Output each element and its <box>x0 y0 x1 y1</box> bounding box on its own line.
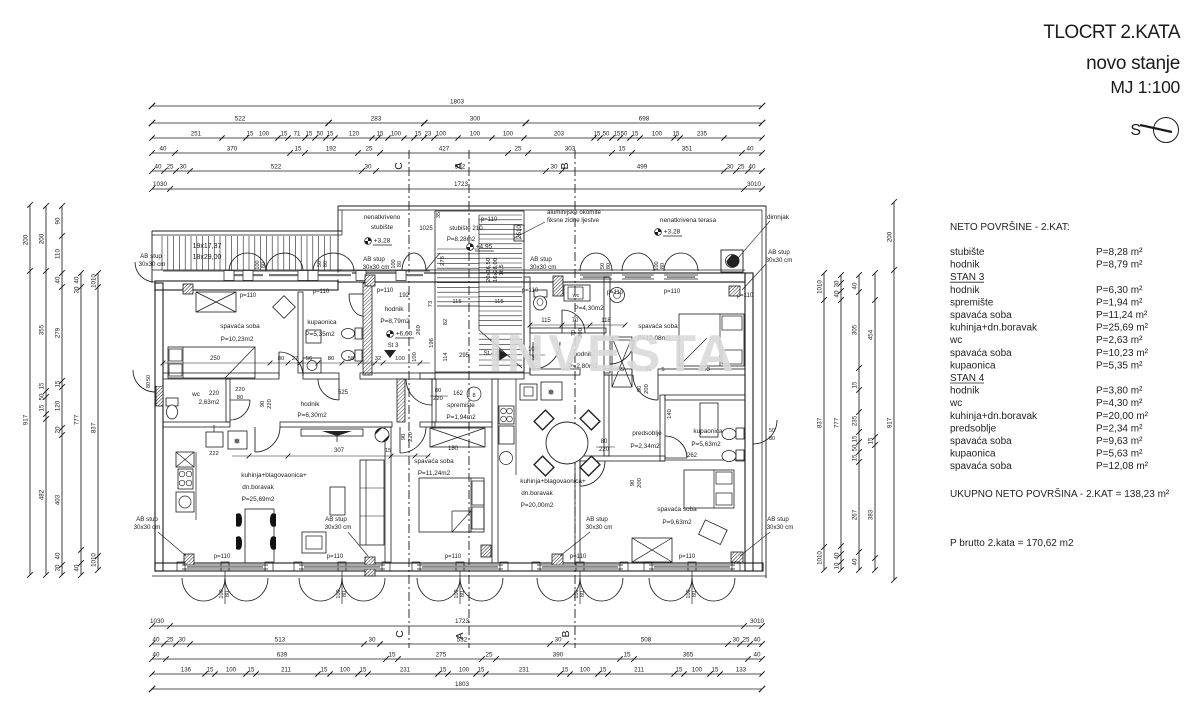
svg-text:50: 50 <box>852 444 859 451</box>
svg-text:kupaonica: kupaonica <box>950 360 996 371</box>
svg-text:2,63m2: 2,63m2 <box>199 399 220 406</box>
svg-text:kupaonica: kupaonica <box>307 319 337 326</box>
svg-text:P=2,34m2: P=2,34m2 <box>630 443 660 450</box>
svg-text:15: 15 <box>478 667 485 674</box>
dimension chains left side <box>23 202 101 578</box>
svg-text:50: 50 <box>146 375 152 381</box>
svg-text:STAN 3: STAN 3 <box>950 272 985 283</box>
svg-text:spavaća soba: spavaća soba <box>414 458 454 465</box>
svg-text:P=25,69m2: P=25,69m2 <box>242 496 275 503</box>
svg-text:wc: wc <box>949 398 962 409</box>
svg-text:40: 40 <box>154 164 162 171</box>
bed bedroom STAN4 (12,08) <box>679 314 744 366</box>
svg-text:AB stup: AB stup <box>363 256 385 263</box>
svg-text:p=110: p=110 <box>570 554 587 560</box>
svg-text:hodnik: hodnik <box>385 306 405 313</box>
svg-text:390: 390 <box>553 652 564 659</box>
svg-text:192: 192 <box>399 293 410 299</box>
svg-text:100: 100 <box>259 131 270 138</box>
room label spremiste <box>446 402 476 421</box>
svg-text:8: 8 <box>472 393 475 399</box>
svg-text:200: 200 <box>23 234 30 245</box>
bath tub kupaonica STAN4 <box>700 403 718 437</box>
svg-text:P=4,30m2: P=4,30m2 <box>574 305 604 312</box>
svg-text:15: 15 <box>207 667 214 674</box>
svg-text:90: 90 <box>401 434 407 440</box>
svg-text:P=3,80 m²: P=3,80 m² <box>1096 386 1143 397</box>
svg-text:15: 15 <box>281 131 288 138</box>
room label hodnik 8,79 <box>380 306 414 358</box>
room label hodnik 6,30 <box>297 401 327 419</box>
washbasin kupaonica STAN3 <box>303 358 321 373</box>
svg-text:p=110: p=110 <box>445 554 462 560</box>
svg-text:P=5,63 m²: P=5,63 m² <box>1096 449 1143 460</box>
svg-text:80: 80 <box>460 591 466 597</box>
ventilation circle wc STAN4 <box>610 288 625 303</box>
svg-text:kuhinja+dn.boravak: kuhinja+dn.boravak <box>950 411 1038 422</box>
svg-text:stubište: stubište <box>371 224 393 231</box>
svg-text:spremište: spremište <box>950 297 994 308</box>
sofa STAN3 <box>302 460 384 553</box>
svg-text:+4,95: +4,95 <box>476 244 493 251</box>
svg-text:1803: 1803 <box>450 99 465 106</box>
svg-text:25: 25 <box>485 652 493 659</box>
svg-text:30: 30 <box>550 164 558 171</box>
svg-text:NETO POVRŠINE - 2.KAT:: NETO POVRŠINE - 2.KAT: <box>950 220 1070 233</box>
svg-text:482: 482 <box>39 489 46 500</box>
svg-text:P=5,35 m²: P=5,35 m² <box>1096 360 1143 371</box>
svg-text:P=2,63 m²: P=2,63 m² <box>1096 335 1143 346</box>
wall below stairs <box>420 373 524 379</box>
svg-text:spavaća soba: spavaća soba <box>657 506 697 513</box>
svg-text:p=110: p=110 <box>522 288 539 294</box>
svg-text:15: 15 <box>440 667 447 674</box>
svg-text:novo stanje: novo stanje <box>1086 53 1180 74</box>
wall kitchen/bedroom STAN4 <box>575 456 580 563</box>
toilet+bidet kupaonica STAN3 <box>342 328 363 361</box>
room label spavaca 9,63 <box>657 506 697 526</box>
svg-text:100: 100 <box>503 131 514 138</box>
wardrobe X-box bedroom1 STAN3 <box>196 292 236 312</box>
svg-text:30: 30 <box>179 164 187 171</box>
svg-text:MJ 1:100: MJ 1:100 <box>1110 77 1180 97</box>
wc room walls STAN3 <box>163 379 230 427</box>
svg-text:1010: 1010 <box>91 553 98 567</box>
svg-text:1010: 1010 <box>817 551 824 565</box>
svg-text:351: 351 <box>682 146 693 153</box>
svg-text:P brutto 2.kata = 170,62 m2: P brutto 2.kata = 170,62 m2 <box>950 538 1074 549</box>
svg-text:hodnik: hodnik <box>301 401 321 408</box>
svg-text:spavaća soba: spavaća soba <box>220 323 260 330</box>
label dimnjak with leader <box>738 214 790 258</box>
svg-text:10: 10 <box>834 562 841 569</box>
window w/ swing arcs, top wall left section <box>163 253 440 281</box>
svg-text:40: 40 <box>834 290 841 297</box>
svg-text:15: 15 <box>868 437 875 444</box>
svg-text:15: 15 <box>632 131 639 138</box>
svg-text:100: 100 <box>580 667 591 674</box>
svg-text:p=110: p=110 <box>679 554 696 560</box>
svg-text:454: 454 <box>868 329 875 340</box>
dimension chain bottom row2 40/25/30/513/30/532/30/508/30/25/40 <box>149 637 765 647</box>
svg-text:p=110: p=110 <box>607 290 624 296</box>
svg-text:100: 100 <box>459 667 470 674</box>
dimension chain bottom row1 1030/1723/3010 <box>149 618 765 629</box>
svg-text:56: 56 <box>306 356 312 362</box>
kitchen counter STAN4 <box>499 379 562 475</box>
door bedroom STAN3 <box>400 427 426 453</box>
svg-text:27: 27 <box>292 356 298 362</box>
dimension chain top row6 1030/1723/3010 <box>149 181 765 192</box>
svg-text:100: 100 <box>692 667 703 674</box>
svg-text:15: 15 <box>55 380 62 387</box>
svg-text:80: 80 <box>580 591 586 597</box>
svg-text:P=6,30 m²: P=6,30 m² <box>1096 285 1143 296</box>
toilet+bidet kupaonica STAN4 <box>722 428 744 462</box>
svg-text:aluminijske okomite: aluminijske okomite <box>547 209 602 216</box>
svg-text:kuhinja+blagovaonica+: kuhinja+blagovaonica+ <box>241 472 307 479</box>
svg-text:kuhinja+dn.boravak: kuhinja+dn.boravak <box>950 323 1038 334</box>
svg-text:220: 220 <box>267 399 273 409</box>
wall chunk corridor/understairs <box>397 379 405 422</box>
axis line A <box>453 150 469 648</box>
svg-text:STAN 4: STAN 4 <box>950 373 985 384</box>
bed bedroom2 STAN3 (11,24) <box>419 478 484 532</box>
interior dim line 307 kitchen STAN3 <box>232 455 430 457</box>
area table NETO POVRSINE <box>949 220 1170 549</box>
svg-text:50: 50 <box>317 131 324 138</box>
svg-text:30: 30 <box>55 564 62 571</box>
svg-text:180: 180 <box>448 446 459 452</box>
TV bench STAN3 <box>301 429 363 442</box>
svg-text:15: 15 <box>594 131 601 138</box>
svg-text:15: 15 <box>294 146 302 153</box>
svg-text:15: 15 <box>600 667 607 674</box>
label AB stup 30x30 top right <box>742 249 792 290</box>
svg-text:wc: wc <box>191 391 201 398</box>
svg-text:15: 15 <box>673 131 680 138</box>
open terrace outline top <box>152 206 766 578</box>
svg-text:25: 25 <box>514 146 522 153</box>
svg-text:80: 80 <box>278 356 284 362</box>
svg-text:837: 837 <box>817 417 824 428</box>
svg-text:S: S <box>1130 122 1141 139</box>
svg-text:50: 50 <box>603 131 610 138</box>
svg-text:522: 522 <box>271 164 282 171</box>
predsoblje walls <box>580 375 665 461</box>
svg-text:15: 15 <box>385 448 391 454</box>
svg-text:AB stup: AB stup <box>136 516 158 523</box>
dimension chains right side <box>817 199 897 583</box>
svg-text:100: 100 <box>470 131 481 138</box>
svg-text:15: 15 <box>852 435 859 442</box>
svg-text:220: 220 <box>235 387 245 393</box>
window w/ swing arcs, top wall right section (terrace doors) <box>580 253 698 281</box>
dimension chain bottom row4 fine segments <box>149 667 764 677</box>
svg-text:30x30 cm: 30x30 cm <box>767 524 794 531</box>
svg-text:15: 15 <box>248 667 255 674</box>
svg-text:P=20,00m2: P=20,00m2 <box>521 502 554 509</box>
svg-text:p=110: p=110 <box>377 288 394 294</box>
svg-text:A: A <box>453 162 465 169</box>
svg-text:B: B <box>559 162 571 169</box>
svg-text:AB stup: AB stup <box>530 256 552 263</box>
interior wall kitchen/bedroom STAN3 <box>385 427 391 563</box>
svg-text:3010: 3010 <box>750 618 765 625</box>
central staircase block <box>419 211 524 372</box>
svg-text:698: 698 <box>639 116 650 123</box>
svg-text:predsoblje: predsoblje <box>632 430 662 437</box>
decor diamond bedroom1 <box>273 296 296 319</box>
svg-text:522: 522 <box>235 116 246 123</box>
left wall window arc near stairs <box>135 262 155 282</box>
chair diamond bedroom STAN4 <box>699 520 728 545</box>
wardrobe X STAN4 hall <box>612 337 632 387</box>
svg-text:777: 777 <box>74 414 81 425</box>
svg-text:365: 365 <box>683 652 694 659</box>
svg-text:30: 30 <box>178 637 186 644</box>
dimension chain top row4 40/370/15/192/25/427/25/303/15/351/40 <box>149 146 765 156</box>
svg-text:30x30 cm: 30x30 cm <box>530 264 557 271</box>
shower box kupaonica STAN3 <box>306 330 321 343</box>
svg-text:30x30 cm: 30x30 cm <box>586 524 613 531</box>
ladder label: aluminijske okomite fiksne zidne ljestve <box>514 209 602 241</box>
svg-text:30: 30 <box>732 637 740 644</box>
svg-text:St 3: St 3 <box>388 343 399 349</box>
svg-text:80: 80 <box>660 263 666 269</box>
door spavaca soba STAN3 <box>279 352 303 376</box>
svg-text:203: 203 <box>554 131 565 138</box>
svg-text:235: 235 <box>852 415 859 426</box>
svg-text:30: 30 <box>364 164 372 171</box>
svg-text:dimnjak: dimnjak <box>767 214 790 221</box>
svg-text:80: 80 <box>692 591 698 597</box>
svg-text:15: 15 <box>377 131 384 138</box>
svg-text:80: 80 <box>328 356 334 362</box>
svg-text:115: 115 <box>541 318 551 324</box>
dim labels on STAN4 wall <box>530 367 745 460</box>
svg-text:114: 114 <box>443 352 449 362</box>
svg-text:275: 275 <box>436 652 447 659</box>
svg-text:40: 40 <box>74 276 81 283</box>
svg-text:P=8,79m2: P=8,79m2 <box>380 318 410 325</box>
left wall french window <box>133 370 162 392</box>
svg-text:269: 269 <box>416 325 422 335</box>
svg-text:P=11,24m2: P=11,24m2 <box>418 470 451 477</box>
svg-text:kupaonica: kupaonica <box>950 449 996 460</box>
svg-text:P=8,79 m²: P=8,79 m² <box>1096 260 1143 271</box>
svg-text:917: 917 <box>887 417 894 428</box>
label nenatkrivena terasa +3,28 <box>655 217 717 236</box>
svg-text:1803: 1803 <box>455 681 470 688</box>
svg-text:+3,28: +3,28 <box>374 238 391 245</box>
entry door leaf near stair <box>426 253 440 270</box>
svg-text:P=8,28m2: P=8,28m2 <box>447 236 476 243</box>
kitchen counter STAN3 <box>176 425 247 520</box>
svg-text:499: 499 <box>637 164 648 171</box>
svg-text:307: 307 <box>334 448 345 454</box>
svg-text:❅: ❅ <box>234 437 241 446</box>
svg-text:235: 235 <box>697 131 708 138</box>
svg-text:279: 279 <box>55 327 62 338</box>
svg-text:427: 427 <box>439 146 450 153</box>
svg-text:1010: 1010 <box>817 280 824 294</box>
svg-text:C: C <box>393 162 405 170</box>
svg-text:20: 20 <box>55 426 62 433</box>
svg-text:30x30 cm: 30x30 cm <box>363 264 390 271</box>
svg-text:837: 837 <box>91 422 98 433</box>
svg-text:1030: 1030 <box>150 618 165 625</box>
svg-text:508: 508 <box>641 637 652 644</box>
door understairs <box>406 379 432 405</box>
svg-text:18x29,00: 18x29,00 <box>193 254 222 261</box>
right wall french window kupaonica STAN4 <box>746 420 777 444</box>
svg-text:kupaonica: kupaonica <box>693 428 723 435</box>
svg-text:hodnik: hodnik <box>950 386 980 397</box>
svg-text:15: 15 <box>676 667 683 674</box>
AB stup columns (hatched) <box>156 275 743 576</box>
svg-text:20x16,50: 20x16,50 <box>486 258 492 282</box>
room label kuhinja STAN4 <box>520 478 586 509</box>
dimension chain bottom row5 total 1803 <box>149 681 765 692</box>
svg-text:1030: 1030 <box>153 181 168 188</box>
svg-text:P=5,35m2: P=5,35m2 <box>305 331 335 338</box>
svg-text:3010: 3010 <box>747 181 762 188</box>
svg-text:15: 15 <box>712 667 719 674</box>
svg-text:80: 80 <box>397 261 403 267</box>
svg-text:16,5: 16,5 <box>499 264 505 275</box>
wardrobe X bedroom STAN4 <box>632 538 672 562</box>
svg-text:nenatkriveno: nenatkriveno <box>364 214 401 221</box>
svg-text:220: 220 <box>209 391 220 397</box>
svg-text:80: 80 <box>342 591 348 597</box>
svg-text:40: 40 <box>55 276 62 283</box>
svg-text:525: 525 <box>338 390 349 396</box>
svg-text:231: 231 <box>400 667 411 674</box>
chimney (dimnjak) box <box>721 250 743 272</box>
svg-text:30: 30 <box>726 164 734 171</box>
svg-text:nenatkrivena terasa: nenatkrivena terasa <box>660 217 717 224</box>
interior dimension labels <box>161 293 673 488</box>
svg-text:stubište: stubište <box>950 247 985 258</box>
dimension chain top row5 40/25/30/522/30/532/30/499/30/25/40 <box>149 164 765 174</box>
room label wc 2,63 <box>191 387 245 406</box>
svg-text:+6,60: +6,60 <box>396 331 413 338</box>
svg-text:251: 251 <box>191 131 202 138</box>
svg-text:118: 118 <box>601 318 611 324</box>
bed bedroom STAN4 (9,63) <box>684 470 734 508</box>
svg-text:30x30 cm: 30x30 cm <box>766 257 793 264</box>
svg-text:80: 80 <box>435 388 441 394</box>
svg-text:300: 300 <box>470 116 481 123</box>
door kitchen STAN3 <box>255 427 280 452</box>
svg-text:P=6,30m2: P=6,30m2 <box>297 412 327 419</box>
interior dim line 115/70/118 STAN4 <box>530 324 625 326</box>
axis line B <box>559 150 575 648</box>
svg-text:dn.boravak: dn.boravak <box>521 490 553 497</box>
svg-text:25: 25 <box>166 164 174 171</box>
svg-text:p=110: p=110 <box>481 217 498 223</box>
svg-text:40: 40 <box>753 652 761 659</box>
svg-text:305: 305 <box>852 324 859 335</box>
dining table STAN3 <box>236 509 276 563</box>
svg-text:100: 100 <box>226 667 237 674</box>
svg-text:15: 15 <box>618 146 626 153</box>
svg-text:100: 100 <box>391 131 402 138</box>
svg-text:777: 777 <box>834 417 841 428</box>
room label predsoblje <box>630 430 662 450</box>
svg-text:1010: 1010 <box>91 274 98 288</box>
door from kitchen STAN4 <box>580 461 605 486</box>
svg-text:115: 115 <box>452 299 461 305</box>
svg-text:predsoblje: predsoblje <box>950 423 997 434</box>
svg-text:211: 211 <box>634 667 644 674</box>
svg-text:p=110: p=110 <box>664 289 681 295</box>
interior wall STAN3/STAN4 <box>492 379 498 563</box>
exterior wall top (left section) <box>155 281 338 290</box>
svg-text:P=10,23m2: P=10,23m2 <box>221 336 254 343</box>
svg-text:40: 40 <box>159 146 167 153</box>
svg-text:355: 355 <box>39 324 46 335</box>
svg-text:100: 100 <box>340 667 351 674</box>
dimension chain top row3 fine segments <box>149 131 764 141</box>
svg-text:80: 80 <box>769 436 775 442</box>
svg-text:80: 80 <box>601 439 608 445</box>
svg-text:+3,28: +3,28 <box>664 229 681 236</box>
svg-text:71: 71 <box>294 131 301 138</box>
svg-text:A: A <box>454 632 466 639</box>
svg-text:1723: 1723 <box>455 618 470 625</box>
svg-text:90: 90 <box>630 480 636 486</box>
svg-text:15: 15 <box>852 381 859 388</box>
wall below STAN4 upper rooms <box>530 369 745 375</box>
svg-text:25: 25 <box>166 637 174 644</box>
svg-text:spavaća soba: spavaća soba <box>950 436 1012 447</box>
svg-text:250: 250 <box>210 356 221 362</box>
AB stup text labels <box>134 253 794 556</box>
svg-text:kuhinja+blagovaonica+: kuhinja+blagovaonica+ <box>520 478 586 485</box>
svg-text:wc: wc <box>949 335 962 346</box>
svg-text:P=1,94m2: P=1,94m2 <box>446 414 476 421</box>
svg-text:58: 58 <box>348 356 354 362</box>
door kupaonica STAN4 <box>665 436 687 458</box>
svg-text:p=110: p=110 <box>240 293 257 299</box>
svg-text:639: 639 <box>277 652 288 659</box>
door kupaonica STAN3 <box>318 379 339 400</box>
svg-text:100: 100 <box>652 131 663 138</box>
parapet labels p=110 <box>214 288 754 560</box>
svg-text:C: C <box>394 630 406 638</box>
svg-text:1723: 1723 <box>454 181 469 188</box>
axis line C <box>393 150 409 648</box>
svg-text:80: 80 <box>323 261 329 267</box>
svg-text:B: B <box>560 630 572 637</box>
svg-text:80: 80 <box>261 262 267 268</box>
svg-text:513: 513 <box>275 637 286 644</box>
wall stairs/wc STAN4 <box>524 277 530 373</box>
room label kupaonica 5,63 <box>691 428 723 448</box>
svg-text:110: 110 <box>55 249 62 259</box>
toilet wc STAN4 <box>534 285 591 310</box>
svg-text:25: 25 <box>365 146 373 153</box>
svg-text:15: 15 <box>852 454 859 461</box>
room label spavaca soba 10,23 <box>220 323 260 343</box>
exterior wall bottom <box>155 563 763 571</box>
svg-text:15: 15 <box>562 667 569 674</box>
svg-text:115: 115 <box>494 299 503 305</box>
svg-text:220: 220 <box>599 447 610 453</box>
svg-text:30: 30 <box>74 286 81 293</box>
